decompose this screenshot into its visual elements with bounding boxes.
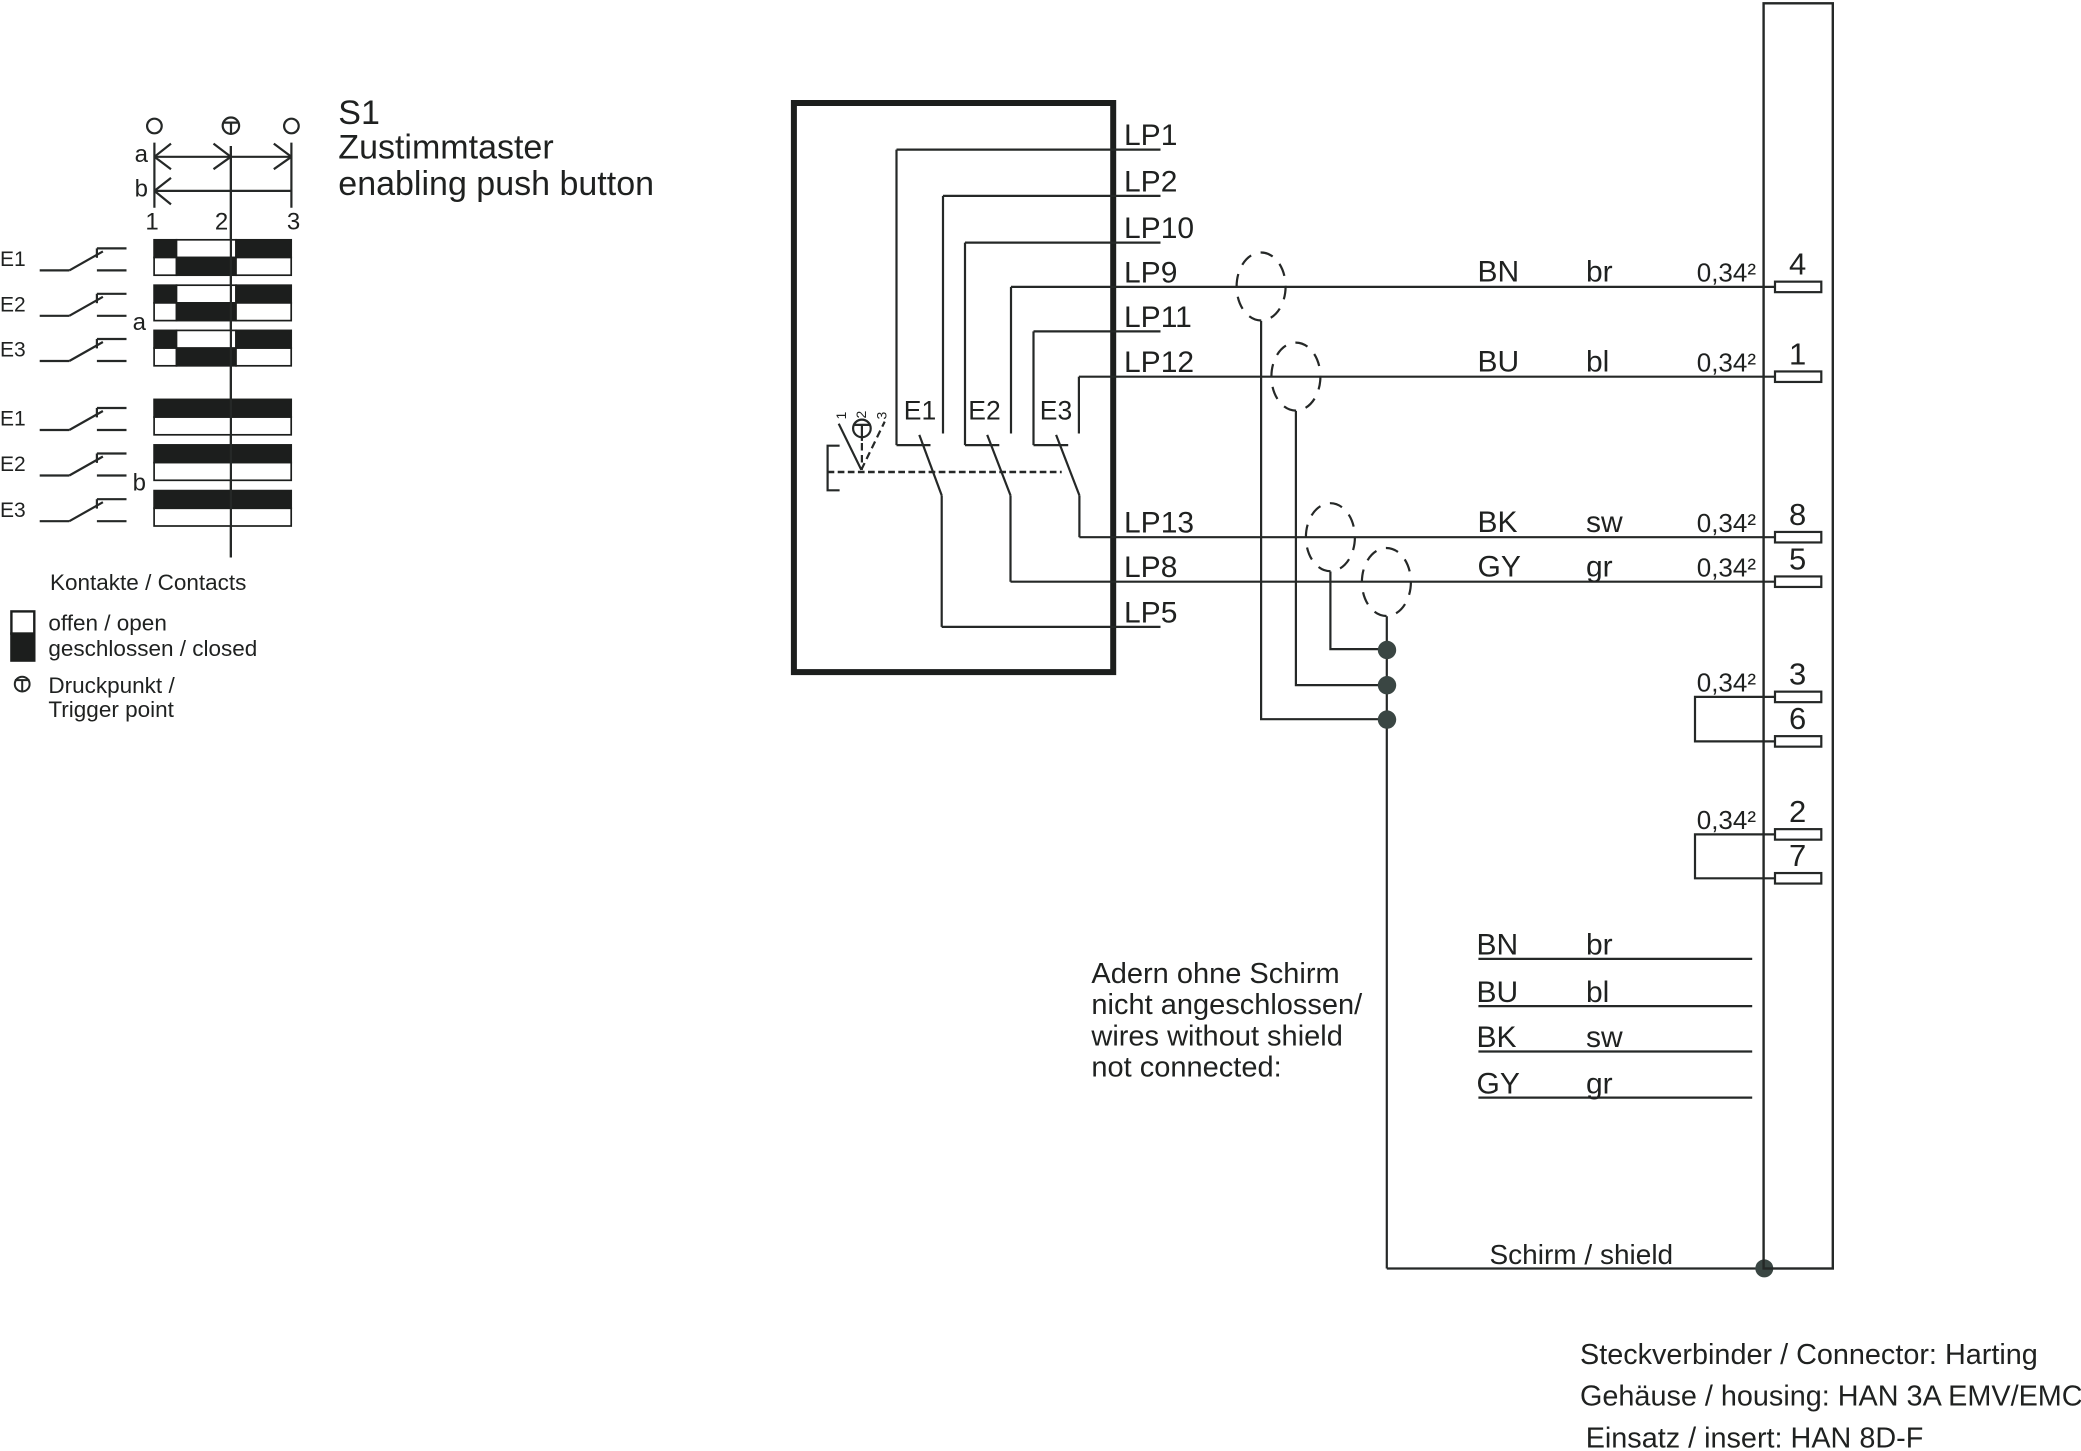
svg-text:LP9: LP9 (1124, 256, 1177, 289)
svg-text:E3: E3 (0, 339, 26, 362)
svg-text:sw: sw (1586, 506, 1623, 539)
svg-text:LP11: LP11 (1124, 301, 1192, 334)
svg-text:BN: BN (1477, 929, 1519, 962)
svg-text:0,34²: 0,34² (1697, 668, 1757, 698)
svg-text:BK: BK (1478, 506, 1518, 539)
svg-text:gr: gr (1586, 1067, 1613, 1100)
svg-text:3: 3 (874, 412, 890, 420)
svg-text:2: 2 (853, 411, 869, 419)
svg-text:gr: gr (1586, 550, 1613, 583)
svg-text:b: b (135, 175, 148, 202)
svg-text:0,34²: 0,34² (1697, 508, 1757, 538)
svg-text:LP5: LP5 (1124, 596, 1177, 629)
svg-text:E2: E2 (0, 293, 26, 316)
svg-text:1: 1 (833, 412, 849, 420)
svg-text:E1: E1 (0, 248, 26, 271)
svg-text:LP13: LP13 (1124, 507, 1194, 540)
svg-text:Trigger point: Trigger point (48, 697, 174, 722)
svg-text:Kontakte / Contacts: Kontakte / Contacts (50, 570, 246, 595)
svg-text:0,34²: 0,34² (1697, 805, 1757, 835)
svg-text:6: 6 (1789, 701, 1806, 736)
svg-text:E2: E2 (0, 453, 26, 476)
svg-text:E1: E1 (904, 396, 936, 426)
svg-text:8: 8 (1789, 497, 1806, 532)
svg-text:3: 3 (1789, 657, 1806, 692)
svg-text:wires without shield: wires without shield (1090, 1020, 1342, 1052)
svg-text:LP2: LP2 (1124, 165, 1177, 198)
svg-text:Einsatz / insert: HAN 8D-F: Einsatz / insert: HAN 8D-F (1586, 1423, 1924, 1451)
svg-text:4: 4 (1789, 247, 1806, 282)
svg-text:0,34²: 0,34² (1697, 552, 1757, 582)
svg-text:E3: E3 (1040, 396, 1072, 426)
svg-text:0,34²: 0,34² (1697, 347, 1757, 377)
svg-text:Steckverbinder / Connector: Ha: Steckverbinder / Connector: Harting (1580, 1339, 2038, 1371)
svg-text:offen / open: offen / open (48, 611, 166, 636)
svg-text:LP10: LP10 (1124, 212, 1194, 245)
svg-text:BN: BN (1478, 256, 1520, 289)
svg-text:a: a (133, 309, 147, 336)
svg-text:a: a (135, 141, 149, 168)
svg-text:bl: bl (1586, 345, 1609, 378)
svg-text:LP1: LP1 (1124, 119, 1177, 152)
svg-text:Schirm / shield: Schirm / shield (1490, 1239, 1674, 1270)
svg-text:0,34²: 0,34² (1697, 258, 1757, 288)
svg-text:BK: BK (1477, 1021, 1517, 1054)
svg-text:LP8: LP8 (1124, 551, 1177, 584)
svg-text:br: br (1586, 929, 1613, 962)
svg-text:Gehäuse / housing: HAN 3A EMV/: Gehäuse / housing: HAN 3A EMV/EMC (1580, 1381, 2081, 1413)
svg-text:GY: GY (1478, 550, 1521, 583)
svg-text:b: b (133, 470, 146, 497)
svg-text:7: 7 (1789, 838, 1806, 873)
svg-text:3: 3 (287, 209, 300, 236)
svg-text:LP12: LP12 (1124, 346, 1194, 379)
svg-text:Zustimmtaster: Zustimmtaster (338, 129, 553, 167)
svg-text:geschlossen / closed: geschlossen / closed (48, 636, 257, 661)
svg-text:GY: GY (1477, 1067, 1520, 1100)
svg-text:enabling push button: enabling push button (338, 165, 654, 203)
svg-text:BU: BU (1478, 345, 1520, 378)
svg-text:2: 2 (1789, 794, 1806, 829)
svg-text:br: br (1586, 256, 1613, 289)
svg-text:5: 5 (1789, 542, 1806, 577)
svg-text:nicht angeschlossen/: nicht angeschlossen/ (1091, 989, 1363, 1021)
svg-text:E1: E1 (0, 408, 26, 431)
svg-text:S1: S1 (338, 94, 380, 132)
svg-text:bl: bl (1586, 976, 1609, 1009)
svg-text:E3: E3 (0, 499, 26, 522)
svg-text:1: 1 (145, 209, 158, 236)
svg-text:BU: BU (1477, 976, 1519, 1009)
svg-text:Druckpunkt /: Druckpunkt / (48, 673, 175, 698)
svg-text:Adern ohne Schirm: Adern ohne Schirm (1091, 958, 1339, 990)
svg-text:E2: E2 (968, 396, 1000, 426)
svg-text:2: 2 (215, 209, 228, 236)
svg-text:1: 1 (1789, 337, 1806, 372)
svg-text:not connected:: not connected: (1091, 1052, 1281, 1084)
svg-text:sw: sw (1586, 1021, 1623, 1054)
